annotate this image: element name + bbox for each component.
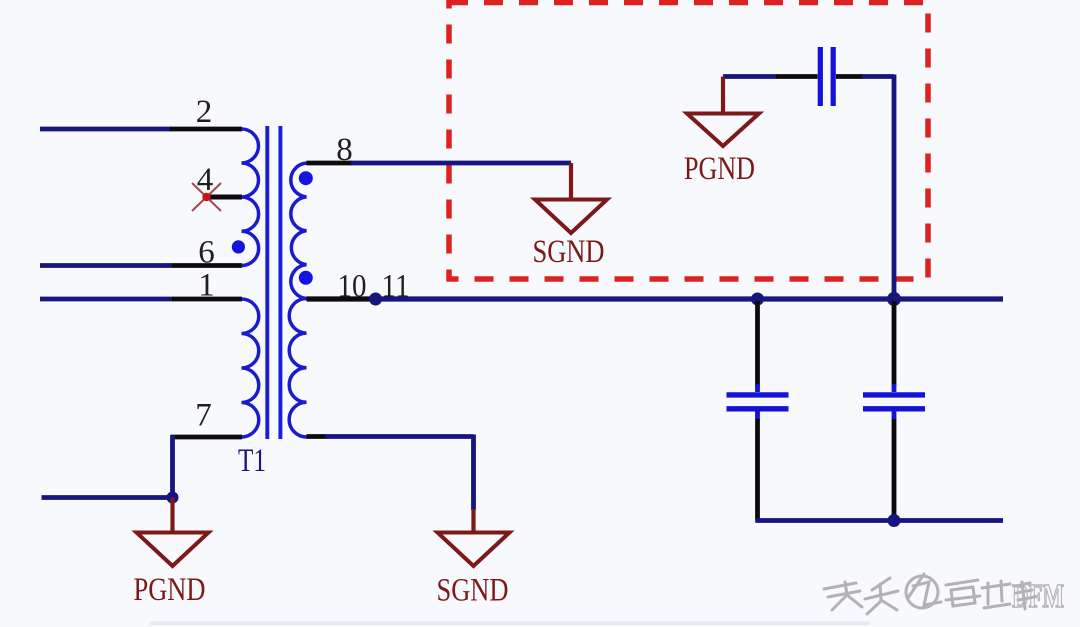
ground PGND bottom-left triangle bbox=[137, 533, 209, 567]
svg-text:10: 10 bbox=[338, 269, 367, 305]
wire pin2 left (navy) bbox=[40, 127, 171, 132]
svg-text:SGND: SGND bbox=[533, 234, 605, 270]
wire pin2 stub (black) bbox=[170, 127, 242, 132]
ground PGND top triangle bbox=[687, 114, 759, 147]
junction dot bus/cap2 bbox=[887, 292, 901, 306]
transformer T1 left winding 2-4-6 bbox=[242, 129, 259, 266]
SGND stub in box (maroon) bbox=[569, 163, 573, 199]
capacitor C1 bottom lead (black) bbox=[755, 419, 760, 519]
wire cap left lead (black) bbox=[776, 74, 818, 79]
wire pin7 down (navy) bbox=[170, 435, 175, 498]
wire pin7 stub (black) bbox=[171, 435, 242, 440]
junction node 11 bbox=[369, 293, 382, 306]
capacitor C2 plates bbox=[863, 395, 925, 409]
red X no-connect at pin 4 bbox=[192, 183, 221, 211]
wire PGND-cap corner (navy) bbox=[723, 74, 777, 79]
wire pin8 to SGND (navy) bbox=[351, 161, 571, 166]
watermark bbox=[824, 574, 1064, 615]
transformer T1 right winding 10-bottom bbox=[289, 299, 306, 438]
bottom faint smear bbox=[150, 622, 870, 626]
wire pin4 stub (black) bbox=[207, 195, 242, 200]
wire pin10 stub (black) bbox=[307, 296, 375, 301]
junction dot bottom bus/cap2 bbox=[888, 514, 901, 527]
capacitor C2 bottom lead (black) bbox=[892, 419, 897, 519]
svg-text:T1: T1 bbox=[238, 443, 266, 479]
wire pin1 left (navy) bbox=[40, 297, 173, 302]
wire cap to right vertical (navy) bbox=[862, 75, 894, 300]
svg-text:7: 7 bbox=[195, 398, 212, 434]
svg-text:PGND: PGND bbox=[134, 572, 206, 608]
wire bottom-right stub (black) bbox=[307, 434, 327, 439]
wire pin6 stub (black) bbox=[172, 263, 242, 268]
capacitor C1 blue stubs bbox=[755, 384, 760, 420]
ground SGND in box triangle bbox=[535, 200, 607, 234]
phase dot right winding bottom bbox=[299, 271, 313, 285]
wire cap right lead (black) bbox=[836, 74, 863, 79]
junction dot pin7/PGND bbox=[167, 492, 179, 504]
wire to SGND bottom (navy) bbox=[325, 435, 474, 511]
junction dot bus/cap1 bbox=[751, 293, 764, 306]
wire pin1 stub (black) bbox=[172, 297, 242, 302]
capacitor Y-cap plates bbox=[820, 47, 833, 106]
svg-text:11: 11 bbox=[382, 269, 410, 305]
transformer T1 right winding 8-10 bbox=[291, 163, 307, 299]
svg-text:8: 8 bbox=[336, 132, 353, 168]
capacitor C1 top lead (black) bbox=[755, 301, 760, 386]
wire PGND net left (navy) bbox=[42, 495, 173, 500]
svg-text:4: 4 bbox=[197, 162, 214, 198]
PGND top stub (maroon) bbox=[721, 77, 725, 114]
SGND bottom stub (maroon) bbox=[471, 509, 475, 532]
svg-text:SGND: SGND bbox=[437, 573, 509, 609]
capacitor C1 plates bbox=[727, 395, 789, 409]
wire pin8 stub (black) bbox=[307, 161, 353, 166]
svg-text:2: 2 bbox=[196, 94, 213, 130]
wire main bus pin11 (navy) bbox=[373, 296, 1003, 301]
capacitor C2 blue stubs bbox=[892, 384, 897, 420]
svg-text:1: 1 bbox=[198, 268, 215, 304]
phase dot left winding bbox=[232, 240, 245, 253]
wire pin6 left (navy) bbox=[40, 263, 173, 268]
svg-text:DFM: DFM bbox=[1012, 578, 1064, 615]
ground SGND bottom triangle bbox=[438, 533, 510, 567]
transformer T1 left winding 1-7 bbox=[242, 299, 259, 437]
capacitor C2 top lead (black) bbox=[892, 301, 897, 386]
transformer core lines bbox=[267, 126, 280, 439]
wire bottom bus (navy) bbox=[755, 518, 1003, 521]
phase dot right winding top bbox=[299, 171, 313, 185]
svg-text:6: 6 bbox=[198, 235, 215, 271]
PGND stub (maroon) bbox=[170, 498, 174, 533]
svg-text:PGND: PGND bbox=[684, 151, 755, 187]
red dashed isolation box bbox=[449, 3, 928, 280]
